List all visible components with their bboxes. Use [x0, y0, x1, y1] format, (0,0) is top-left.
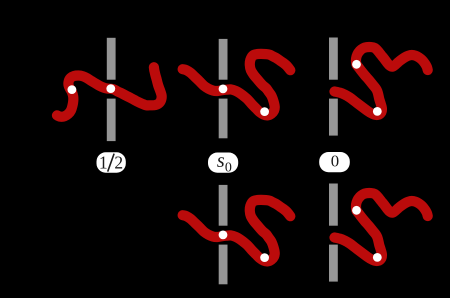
membrane wall panel 3 — [329, 38, 338, 136]
monomer dot upper panel 3 — [352, 60, 361, 69]
monomer dot lower panel 4 — [260, 253, 269, 262]
svg-text:1: 1 — [99, 152, 108, 172]
membrane wall panel 1 — [107, 38, 116, 141]
label pill s0 — [208, 153, 238, 173]
monomer dot at pore panel 4 — [219, 231, 228, 240]
membrane wall panel 5 — [329, 184, 338, 282]
svg-text:2: 2 — [114, 153, 123, 173]
svg-text:0: 0 — [225, 161, 232, 176]
membrane wall panel 4 — [219, 185, 228, 284]
monomer dot lower panel 3 — [373, 107, 382, 116]
monomer dot at pore panel 1 — [106, 84, 115, 93]
monomer dot left panel 1 — [68, 85, 77, 94]
polymer chain panel 1 — [57, 67, 162, 117]
polymer chain panel 3 — [335, 47, 428, 115]
monomer dot upper panel 5 — [352, 206, 361, 215]
label pill 0 — [319, 152, 350, 172]
svg-text:0: 0 — [331, 152, 339, 171]
monomer dot lower panel 2 — [260, 107, 269, 116]
label pill 1/2 — [97, 152, 126, 172]
polymer chain panel 5 — [335, 193, 428, 261]
monomer dot at pore panel 2 — [219, 85, 228, 94]
svg-text:s: s — [217, 150, 225, 172]
polymer chain panel 2 — [183, 54, 291, 115]
polymer chain panel 4 — [183, 200, 291, 261]
monomer dot lower panel 5 — [373, 253, 382, 262]
membrane wall panel 2 — [219, 39, 228, 138]
